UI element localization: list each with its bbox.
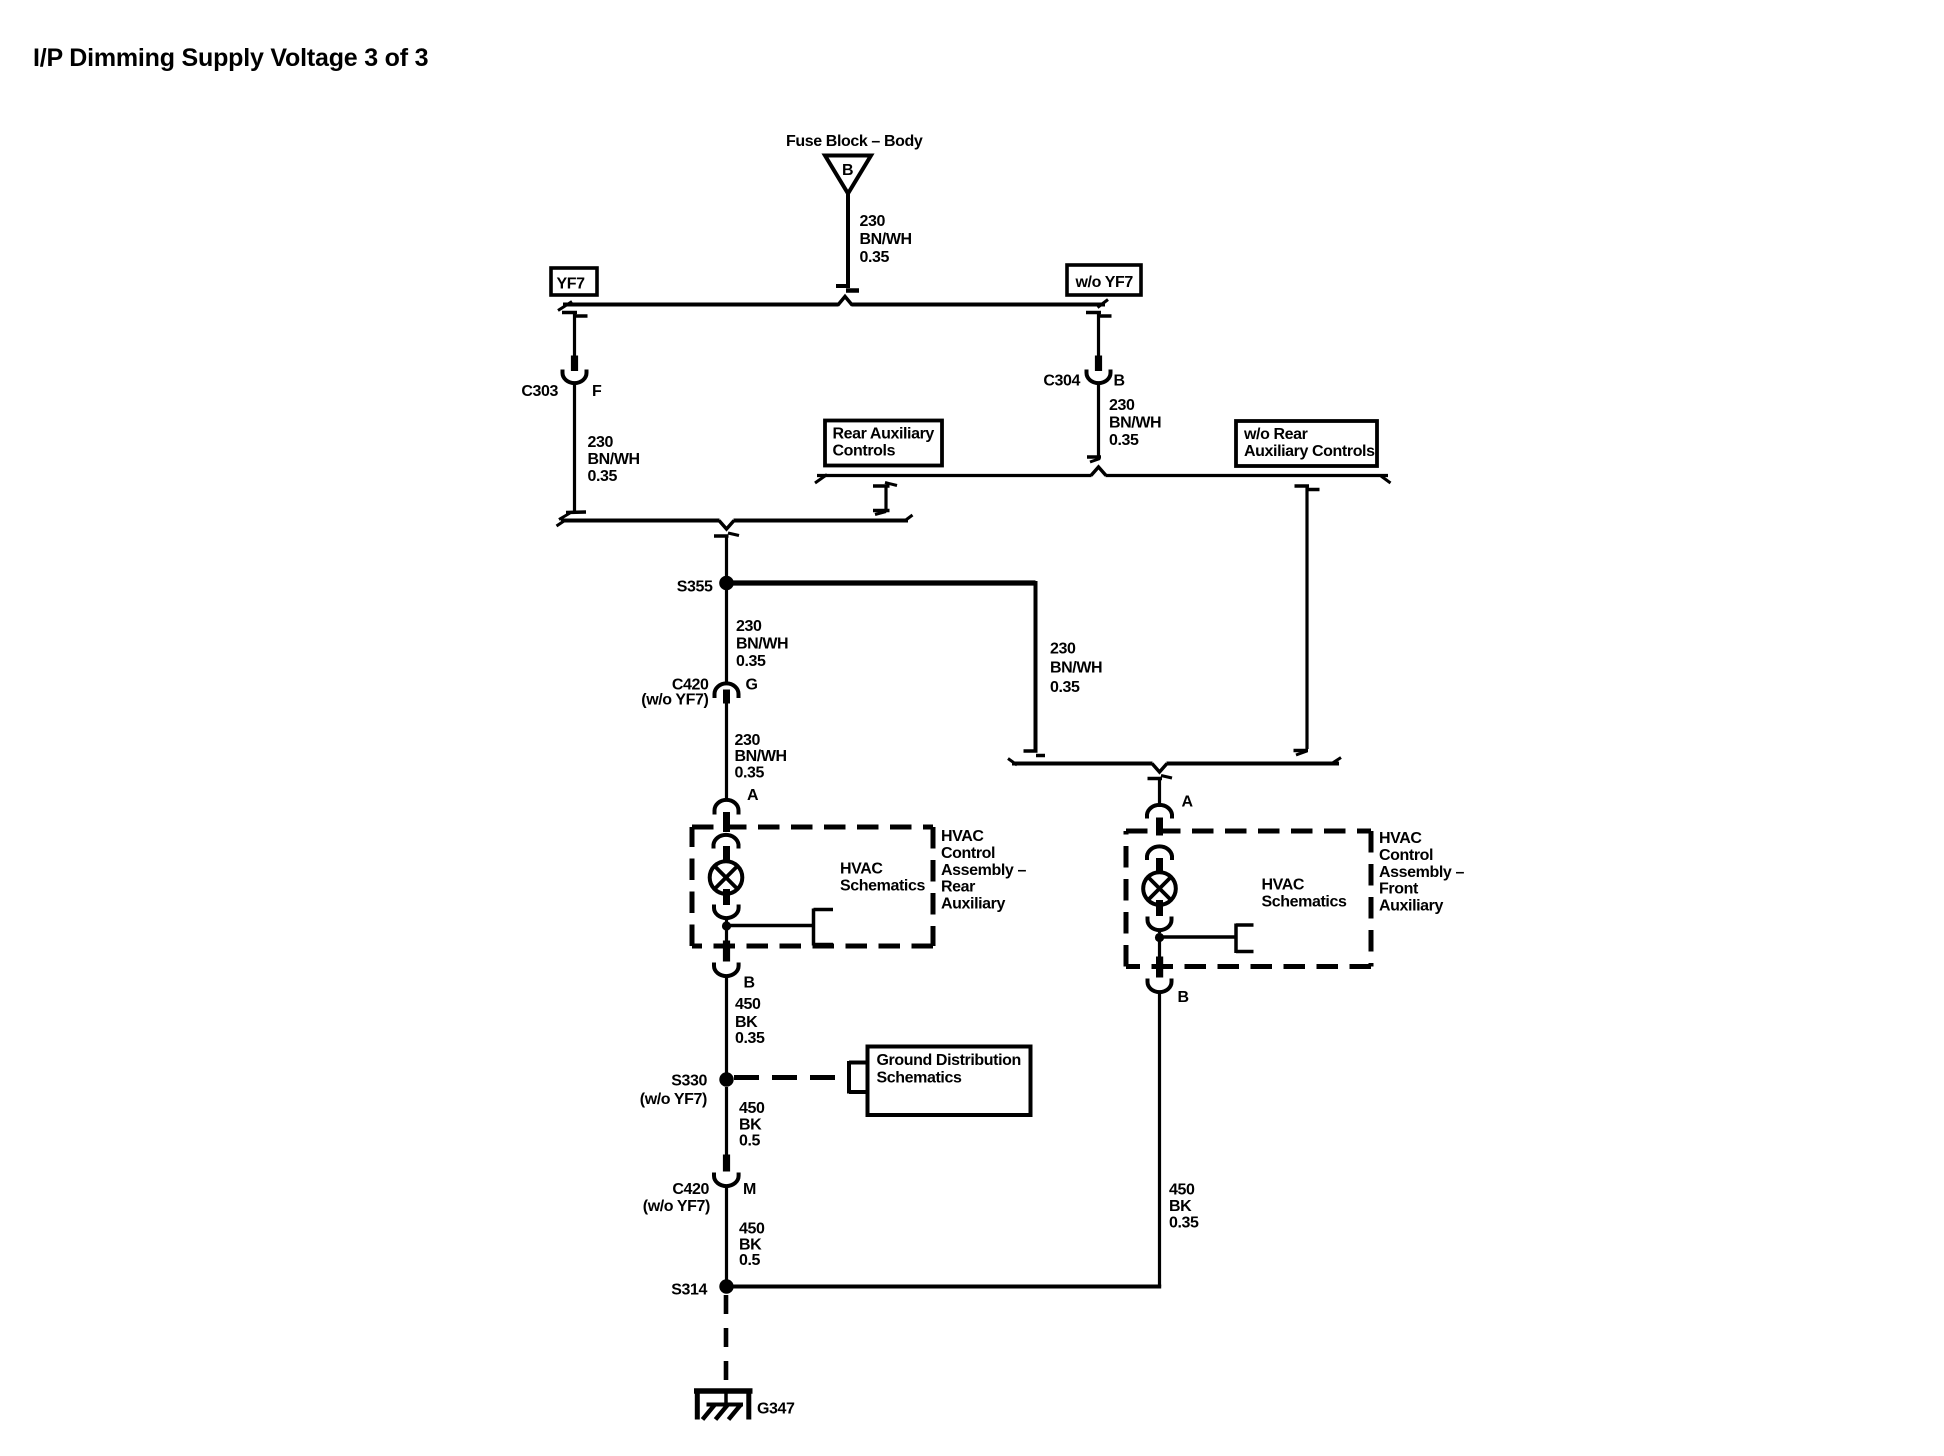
ground G347: [694, 1391, 753, 1420]
svg-text:230: 230: [735, 732, 761, 749]
svg-text:BN/WH: BN/WH: [1050, 660, 1102, 677]
svg-text:BN/WH: BN/WH: [860, 231, 912, 248]
wire to HVAC schematics bracket front: [1160, 924, 1254, 954]
svg-text:Controls: Controls: [833, 443, 896, 460]
svg-text:G: G: [746, 677, 758, 694]
wire pin B front to S314: [1158, 992, 1161, 1287]
svg-text:BN/WH: BN/WH: [588, 451, 640, 468]
lamp front lower terminal: [1148, 900, 1172, 933]
svg-text:YF7: YF7: [557, 276, 586, 293]
box w/o Rear Auxiliary Controls: [1236, 421, 1377, 466]
wire C420 M to S314: [725, 1186, 728, 1280]
svg-text:Auxiliary: Auxiliary: [1379, 898, 1443, 915]
fuse block B triangle (Fuse Block - Body): [825, 156, 871, 194]
terminal arc inside front box: [1147, 846, 1172, 875]
svg-text:I/P Dimming Supply Voltage 3 o: I/P Dimming Supply Voltage 3 of 3: [33, 44, 428, 72]
splice S314: [719, 1279, 733, 1293]
box w/o YF7: [1067, 265, 1141, 295]
svg-text:HVAC: HVAC: [941, 828, 984, 845]
svg-text:0.35: 0.35: [1050, 679, 1080, 696]
svg-text:Schematics: Schematics: [877, 1070, 962, 1087]
svg-text:Fuse Block – Body: Fuse Block – Body: [786, 133, 923, 150]
svg-text:230: 230: [860, 213, 886, 230]
box Ground Distribution Schematics: [868, 1047, 1031, 1116]
svg-text:S355: S355: [677, 579, 713, 596]
svg-text:0.35: 0.35: [860, 249, 890, 266]
svg-text:B: B: [1114, 373, 1125, 390]
svg-text:230: 230: [588, 434, 614, 451]
wire rear box exit pin B: [714, 926, 739, 976]
connector A HVAC rear: [715, 800, 739, 832]
svg-text:Rear: Rear: [941, 879, 975, 896]
svg-text:Auxiliary: Auxiliary: [941, 896, 1005, 913]
svg-text:Auxiliary Controls: Auxiliary Controls: [1244, 443, 1375, 460]
wire w/o YF7 drop to C304: [1086, 313, 1112, 357]
terminal arc inside rear box: [714, 835, 739, 862]
svg-text:BK: BK: [739, 1237, 762, 1254]
svg-text:Assembly –: Assembly –: [941, 862, 1026, 879]
wire YF7 drop to C303: [562, 313, 588, 357]
wire jumper rear-aux bus to L2: [873, 483, 897, 515]
wire front box exit pin B: [1148, 938, 1172, 993]
connector C303 pin F: [563, 356, 587, 384]
svg-text:w/o Rear: w/o Rear: [1243, 426, 1308, 443]
svg-text:Ground Distribution: Ground Distribution: [877, 1052, 1021, 1069]
svg-text:A: A: [1182, 794, 1194, 811]
svg-text:BN/WH: BN/WH: [735, 748, 787, 765]
wire L4 to HVAC front connector A: [1148, 776, 1173, 808]
svg-text:BK: BK: [735, 1014, 758, 1031]
svg-text:F: F: [592, 383, 602, 400]
svg-text:450: 450: [1169, 1182, 1195, 1199]
wire S355 down to C420 G: [725, 590, 728, 682]
connector C420 pin M (w/o YF7): [714, 1155, 739, 1187]
svg-text:0.35: 0.35: [588, 468, 618, 485]
node junction rear box: [722, 921, 731, 930]
svg-text:0.35: 0.35: [735, 765, 765, 782]
wire S314 bus right: [727, 1285, 1162, 1289]
wire dashed S314 to ground G347: [724, 1295, 729, 1389]
svg-text:C304: C304: [1043, 373, 1080, 390]
splice S330 (w/o YF7): [719, 1072, 733, 1086]
wire pin B to S330: [725, 976, 728, 1073]
svg-text:B: B: [1178, 989, 1189, 1006]
svg-text:0.5: 0.5: [739, 1133, 761, 1150]
wire bus L1 (YF7 / w/o YF7 option bus): [558, 300, 1108, 311]
wire C304 to bus L3: [1087, 384, 1101, 463]
svg-text:230: 230: [736, 618, 762, 635]
svg-text:0.5: 0.5: [739, 1252, 761, 1269]
svg-text:M: M: [743, 1181, 756, 1198]
svg-text:S330: S330: [671, 1073, 707, 1090]
wire S330 to C420 M: [725, 1087, 728, 1155]
svg-text:HVAC: HVAC: [840, 861, 883, 878]
wire to HVAC schematics bracket rear: [727, 909, 834, 946]
svg-text:(w/o YF7): (w/o YF7): [643, 1198, 710, 1215]
svg-text:0.35: 0.35: [736, 653, 766, 670]
svg-text:BK: BK: [739, 1117, 762, 1134]
svg-text:G347: G347: [757, 1401, 795, 1418]
wire S355 thick branch right: [727, 581, 1046, 756]
lamp rear illumination: [710, 861, 743, 894]
wire bus L4 (front aux merge bus): [1008, 758, 1341, 766]
svg-text:230: 230: [1050, 641, 1076, 658]
connector A HVAC front: [1147, 805, 1172, 836]
node caret L2 S355 drop: [719, 518, 734, 529]
svg-text:S314: S314: [671, 1282, 707, 1299]
svg-text:B: B: [842, 162, 853, 179]
lamp front illumination: [1143, 872, 1176, 905]
svg-text:Schematics: Schematics: [1262, 894, 1347, 911]
wire w/o rear aux drop to bus L4: [1294, 486, 1320, 755]
svg-text:BK: BK: [1169, 1198, 1192, 1215]
node caret L4 drop: [1152, 761, 1167, 772]
box Rear Auxiliary Controls: [825, 421, 942, 466]
svg-text:450: 450: [739, 1221, 765, 1238]
svg-text:A: A: [747, 787, 759, 804]
wire bus L2 (left merge bus): [557, 515, 913, 526]
svg-text:w/o YF7: w/o YF7: [1075, 274, 1134, 291]
connector C304 pin B: [1087, 356, 1111, 384]
svg-text:0.35: 0.35: [1169, 1215, 1199, 1232]
wire dashed S330 to ground distribution bracket: [734, 1061, 866, 1094]
svg-text:BN/WH: BN/WH: [736, 636, 788, 653]
node caret L1 fuse join: [838, 297, 853, 309]
svg-text:Control: Control: [941, 845, 995, 862]
box dashed HVAC Control Assembly Rear Auxiliary: [692, 827, 933, 946]
splice S355: [719, 576, 734, 591]
connector C420 pin G (w/o YF7): [715, 683, 739, 703]
box dashed HVAC Control Assembly Front Auxiliary: [1126, 831, 1371, 967]
wire L2 to S355: [714, 533, 739, 576]
svg-text:450: 450: [739, 1100, 765, 1117]
wire fuse B to bus L1: [836, 193, 859, 291]
lamp rear lower terminal: [714, 889, 739, 922]
svg-text:(w/o YF7): (w/o YF7): [641, 692, 708, 709]
svg-text:C303: C303: [521, 383, 558, 400]
svg-text:0.35: 0.35: [735, 1030, 765, 1047]
svg-text:Rear Auxiliary: Rear Auxiliary: [833, 426, 935, 443]
svg-text:HVAC: HVAC: [1262, 877, 1305, 894]
svg-text:HVAC: HVAC: [1379, 830, 1422, 847]
wire C420 G to HVAC rear connector A: [725, 703, 728, 799]
svg-text:B: B: [744, 975, 755, 992]
svg-text:Front: Front: [1379, 881, 1419, 898]
svg-text:BN/WH: BN/WH: [1109, 415, 1161, 432]
svg-text:Assembly –: Assembly –: [1379, 864, 1464, 881]
svg-text:C420: C420: [672, 1181, 709, 1198]
wire C303 to bus L2: [559, 384, 586, 520]
svg-text:Control: Control: [1379, 847, 1433, 864]
wire bus L3 (rear auxiliary controls option bus): [815, 475, 1391, 484]
svg-text:Schematics: Schematics: [840, 878, 925, 895]
box YF7: [551, 268, 597, 295]
svg-text:450: 450: [735, 996, 761, 1013]
svg-text:0.35: 0.35: [1109, 432, 1139, 449]
node junction front box: [1155, 933, 1164, 942]
svg-text:230: 230: [1109, 397, 1135, 414]
svg-text:(w/o YF7): (w/o YF7): [640, 1091, 707, 1108]
node caret L3 C304 join: [1091, 467, 1106, 479]
